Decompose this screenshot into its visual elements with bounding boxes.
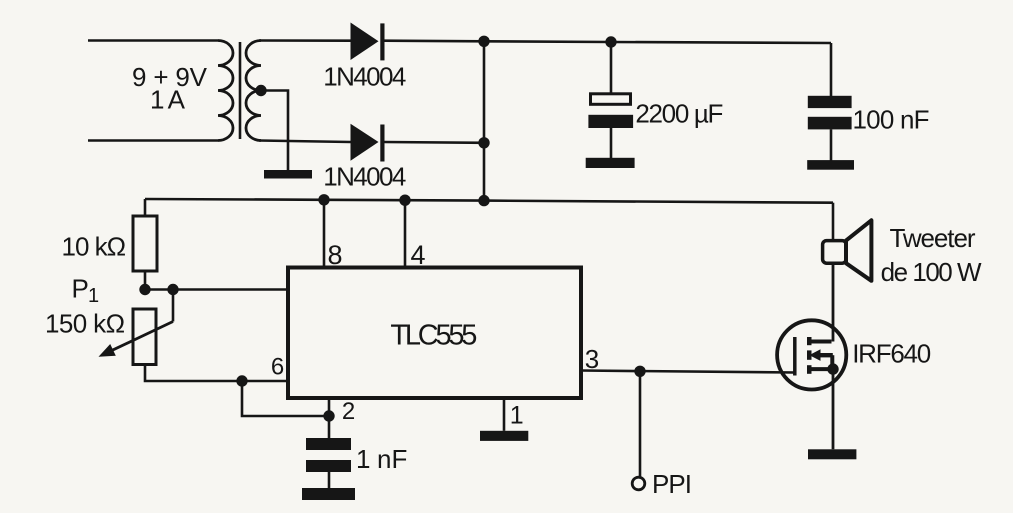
ground (pin 1) — [480, 431, 528, 441]
wire rail down to R1 — [144, 199, 147, 216]
wire branch to pin2 — [242, 381, 329, 416]
capacitor C1 2200uF — [588, 94, 633, 128]
Q1 substrate arrow — [809, 349, 833, 369]
wire secondary bottom to D2 — [259, 141, 351, 143]
transformer T1 primary winding — [218, 41, 233, 141]
wire pin 4 — [404, 200, 407, 267]
wire C3 bottom — [328, 472, 331, 488]
wire node to wiper node — [145, 288, 173, 291]
diode D2 1N4004 — [351, 124, 385, 162]
wire R1 to node — [144, 271, 147, 290]
wire D2 to rectifier node — [385, 141, 485, 144]
node dot top rail / C1 — [605, 36, 616, 47]
node dot wiper — [167, 284, 178, 295]
svg-text:2: 2 — [342, 398, 355, 425]
wire C1 bottom — [610, 128, 613, 158]
ground (center tap) — [264, 170, 312, 179]
diode D1 1N4004 — [351, 23, 385, 61]
svg-text:IRF640: IRF640 — [852, 339, 931, 369]
wire center tap to ground — [261, 91, 288, 171]
ground (C1) — [586, 158, 635, 168]
transformer T1 primary top lead — [88, 39, 218, 42]
svg-text:de 100 W: de 100 W — [881, 257, 982, 287]
node dot source/substrate — [827, 363, 838, 374]
label P1 — [72, 274, 100, 308]
node dot below R1 — [139, 284, 150, 295]
node dot top rail / D1 — [478, 36, 489, 47]
wire tweeter to drain — [832, 263, 835, 341]
node dot pin2 — [323, 410, 334, 421]
node dot D2 junction — [478, 137, 489, 148]
svg-text:TLC555: TLC555 — [390, 320, 477, 352]
IC U1 TLC555 body — [288, 268, 581, 399]
ground (C2) — [807, 160, 854, 170]
capacitor C2 100nF — [808, 96, 852, 130]
svg-text:1: 1 — [88, 285, 99, 307]
wire corner down into C2 — [830, 43, 833, 97]
wire C2 bottom — [830, 129, 833, 160]
svg-text:8: 8 — [328, 240, 343, 270]
wire down to PPI terminal — [639, 371, 642, 477]
svg-text:1: 1 — [510, 402, 524, 430]
Q1 channel dashes — [807, 337, 812, 374]
tweeter cone — [846, 220, 871, 280]
transformer T1 primary bottom lead — [88, 139, 218, 142]
svg-text:2200 µF: 2200 µF — [635, 99, 723, 129]
svg-text:4: 4 — [411, 240, 426, 270]
potentiometer P1 body — [133, 309, 156, 365]
svg-text:P: P — [72, 274, 89, 304]
wire secondary top to D1 — [259, 39, 351, 42]
resistor R1 10k — [133, 216, 157, 271]
svg-text:1N4004: 1N4004 — [323, 62, 406, 92]
wire pin 3 to gate — [581, 371, 795, 373]
svg-text:1: 1 — [356, 444, 370, 474]
node dot rail rectifier — [478, 195, 489, 206]
wire pin 2 — [328, 398, 331, 438]
wire rectifier output vertical — [483, 41, 486, 200]
transformer T1 label 9+9V 1A — [132, 62, 208, 115]
Q1 drain arm — [809, 340, 832, 344]
svg-text:1 A: 1 A — [150, 85, 186, 115]
capacitor C3 1nF — [306, 438, 351, 472]
svg-text:150 kΩ: 150 kΩ — [45, 309, 125, 339]
wire pin 1 — [503, 398, 506, 431]
svg-text:Tweeter: Tweeter — [890, 223, 976, 253]
node dot rail pin4 — [399, 195, 410, 206]
svg-text:10 kΩ: 10 kΩ — [62, 232, 127, 262]
svg-text:nF: nF — [377, 444, 407, 474]
node dot pin3 / PPI — [634, 366, 645, 377]
transformer T1 secondary winding — [246, 41, 261, 141]
wire pin 8 — [323, 200, 326, 268]
terminal PPI open circle — [632, 477, 645, 490]
ground (Q1 source) — [808, 449, 856, 459]
svg-text:PPI: PPI — [652, 469, 692, 499]
node dot rail pin8 — [318, 194, 329, 205]
wire rail corner down to tweeter — [832, 203, 835, 241]
node dot pin6 branch — [236, 375, 247, 386]
svg-text:6: 6 — [271, 354, 284, 381]
wire D1 to 100nF corner (top rail) — [385, 41, 832, 43]
tweeter driver — [823, 241, 847, 264]
wire source to ground — [832, 369, 835, 449]
Q1 gate plate — [793, 337, 797, 376]
transformer T1 core — [239, 42, 242, 139]
Q1 source arm — [808, 367, 833, 371]
transistor Q1 IRF640 body circle — [777, 320, 846, 389]
wire C1 top — [610, 42, 613, 93]
transformer center tap dot — [255, 85, 266, 96]
svg-text:1N4004: 1N4004 — [323, 162, 406, 192]
svg-text:100 nF: 100 nF — [853, 105, 930, 135]
potentiometer P1 wiper arm — [99, 290, 174, 357]
svg-text:3: 3 — [585, 344, 599, 374]
wire P1 bottom to pin6 — [145, 365, 288, 382]
wire VCC rail — [145, 199, 833, 203]
wire wiper node to pin7 — [173, 288, 288, 291]
ground (C3) — [302, 488, 355, 500]
